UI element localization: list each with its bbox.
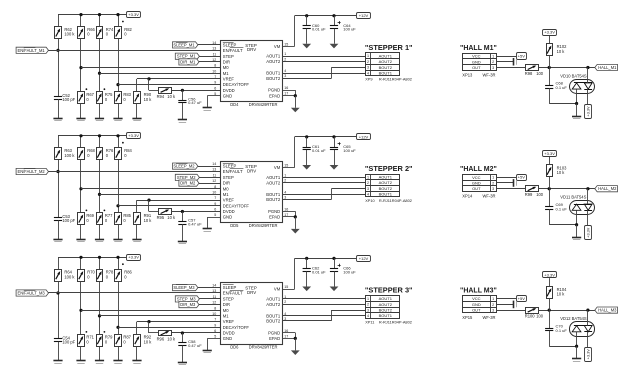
svg-text:DIR: DIR — [223, 181, 230, 186]
svg-text:DD5: DD5 — [230, 223, 239, 228]
svg-text:3: 3 — [284, 195, 286, 199]
svg-text:4: 4 — [367, 71, 369, 75]
svg-text:PGND: PGND — [268, 330, 280, 335]
svg-text:4: 4 — [367, 314, 369, 318]
svg-text:+5V: +5V — [518, 175, 526, 180]
svg-text:BOUT1: BOUT1 — [379, 192, 393, 197]
svg-text:10 k: 10 k — [167, 94, 176, 99]
svg-text:AOUT1: AOUT1 — [266, 54, 281, 59]
svg-text:STEP_M2: STEP_M2 — [177, 175, 196, 180]
svg-text:BOUT1: BOUT1 — [379, 313, 393, 318]
svg-text:1: 1 — [492, 55, 494, 59]
svg-text:4: 4 — [284, 190, 286, 194]
svg-text:AOUT2: AOUT2 — [266, 59, 281, 64]
svg-text:2: 2 — [492, 60, 494, 64]
svg-text:EPAD: EPAD — [269, 336, 280, 341]
svg-text:VCC: VCC — [472, 175, 481, 180]
svg-text:+3.3V: +3.3V — [128, 133, 139, 138]
svg-text:6: 6 — [214, 329, 216, 333]
svg-text:0.47 uF: 0.47 uF — [188, 343, 202, 348]
svg-text:0.01 uF: 0.01 uF — [312, 148, 326, 153]
svg-text:AOUT1: AOUT1 — [379, 175, 393, 180]
svg-text:4: 4 — [367, 193, 369, 197]
svg-text:R100: R100 — [525, 314, 536, 319]
svg-text:0.1 uF: 0.1 uF — [556, 328, 568, 333]
svg-text:100 uF: 100 uF — [343, 148, 356, 153]
svg-text:8: 8 — [214, 306, 216, 310]
svg-text:2: 2 — [367, 181, 369, 185]
svg-text:AOUT2: AOUT2 — [266, 302, 281, 307]
svg-text:VM: VM — [274, 287, 281, 292]
svg-text:1: 1 — [284, 173, 286, 177]
svg-text:R96: R96 — [157, 337, 165, 342]
svg-text:OUT: OUT — [472, 186, 481, 191]
svg-text:R98: R98 — [525, 71, 533, 76]
svg-text:XP14: XP14 — [462, 194, 473, 199]
svg-text:VREF: VREF — [223, 77, 235, 82]
svg-text:12: 12 — [212, 179, 216, 183]
svg-text:3: 3 — [492, 187, 494, 191]
svg-text:STEP_M3: STEP_M3 — [177, 296, 196, 301]
svg-text:8: 8 — [214, 185, 216, 189]
svg-text:3: 3 — [492, 309, 494, 313]
svg-text:R-RJ11R04P-A802: R-RJ11R04P-A802 — [379, 319, 412, 324]
svg-text:VD10 BAT54S: VD10 BAT54S — [560, 74, 587, 79]
svg-text:100 pF: 100 pF — [62, 97, 75, 102]
svg-text:14: 14 — [212, 41, 216, 45]
svg-text:11: 11 — [213, 295, 217, 299]
svg-text:M0: M0 — [223, 186, 229, 191]
svg-text:+12V: +12V — [359, 134, 369, 139]
svg-text:AOUT2: AOUT2 — [379, 302, 393, 307]
svg-text:R-RJ11R04P-A802: R-RJ11R04P-A802 — [379, 77, 412, 82]
svg-text:VCC: VCC — [472, 54, 481, 59]
svg-text:DD4: DD4 — [230, 102, 239, 107]
svg-text:100 uF: 100 uF — [343, 269, 356, 274]
svg-text:13: 13 — [212, 46, 216, 50]
svg-text:GND: GND — [472, 59, 481, 64]
svg-text:16: 16 — [284, 207, 288, 211]
svg-text:100: 100 — [536, 71, 544, 76]
svg-text:6: 6 — [214, 86, 216, 90]
svg-text:M1: M1 — [223, 314, 229, 319]
svg-text:"STEPPER 1": "STEPPER 1" — [365, 43, 413, 52]
svg-text:10: 10 — [212, 191, 216, 195]
svg-text:DIR_M3: DIR_M3 — [180, 302, 196, 307]
svg-text:7: 7 — [214, 196, 216, 200]
svg-text:+3.3V: +3.3V — [587, 349, 591, 359]
svg-text:VD12 BAT54S: VD12 BAT54S — [560, 316, 587, 321]
svg-text:9: 9 — [214, 202, 216, 206]
svg-text:+3.3V: +3.3V — [587, 106, 591, 116]
svg-text:2: 2 — [367, 303, 369, 307]
svg-text:BOUT2: BOUT2 — [379, 65, 393, 70]
svg-text:AOUT1: AOUT1 — [266, 175, 281, 180]
svg-text:10 k: 10 k — [144, 340, 153, 345]
svg-text:1: 1 — [492, 176, 494, 180]
svg-text:EN/FAULT: EN/FAULT — [223, 169, 243, 174]
svg-text:M0: M0 — [223, 308, 229, 313]
svg-text:11: 11 — [213, 52, 217, 56]
svg-text:14: 14 — [212, 162, 216, 166]
svg-text:100 k: 100 k — [64, 32, 75, 37]
svg-text:3: 3 — [367, 66, 369, 70]
svg-text:OUT: OUT — [472, 65, 481, 70]
svg-text:GND: GND — [472, 302, 481, 307]
svg-text:VCC: VCC — [472, 296, 481, 301]
svg-text:2: 2 — [492, 303, 494, 307]
svg-text:15: 15 — [284, 285, 288, 289]
svg-text:+3.3V: +3.3V — [544, 151, 555, 156]
svg-text:HALL_M2: HALL_M2 — [598, 186, 617, 191]
svg-text:3: 3 — [284, 74, 286, 78]
svg-text:EN/FAULT_M1: EN/FAULT_M1 — [17, 48, 45, 53]
svg-text:SLEEP_M2: SLEEP_M2 — [173, 164, 195, 169]
svg-text:10: 10 — [212, 312, 216, 316]
svg-text:SLEEP_M1: SLEEP_M1 — [173, 42, 195, 47]
svg-text:6: 6 — [214, 208, 216, 212]
svg-text:1: 1 — [367, 297, 369, 301]
svg-text:+3.3V: +3.3V — [128, 12, 139, 17]
svg-text:17: 17 — [284, 334, 288, 338]
svg-text:AOUT1: AOUT1 — [379, 296, 393, 301]
svg-text:SLEEP: SLEEP — [223, 43, 237, 48]
svg-text:DVDD: DVDD — [223, 209, 235, 214]
svg-text:0.01 uF: 0.01 uF — [312, 269, 326, 274]
svg-text:100: 100 — [536, 192, 544, 197]
svg-text:11: 11 — [213, 174, 217, 178]
svg-text:M1: M1 — [223, 192, 229, 197]
svg-text:SLEEP: SLEEP — [223, 285, 237, 290]
svg-text:1: 1 — [367, 175, 369, 179]
svg-text:1: 1 — [492, 297, 494, 301]
svg-text:9: 9 — [214, 81, 216, 85]
svg-text:AOUT1: AOUT1 — [379, 53, 393, 58]
svg-text:EN/FAULT_M3: EN/FAULT_M3 — [17, 291, 45, 296]
svg-text:10 k: 10 k — [144, 218, 153, 223]
svg-text:BOUT2: BOUT2 — [379, 186, 393, 191]
svg-text:7: 7 — [214, 318, 216, 322]
svg-text:HALL_M3: HALL_M3 — [598, 308, 617, 313]
svg-text:PGND: PGND — [268, 209, 280, 214]
svg-text:0.1 uF: 0.1 uF — [556, 206, 568, 211]
svg-text:12: 12 — [212, 301, 216, 305]
svg-text:DVDD: DVDD — [223, 88, 235, 93]
svg-text:15: 15 — [284, 164, 288, 168]
svg-text:100 k: 100 k — [64, 274, 75, 279]
svg-text:3: 3 — [492, 66, 494, 70]
svg-text:OUT: OUT — [472, 308, 481, 313]
svg-text:16: 16 — [284, 86, 288, 90]
svg-text:2: 2 — [367, 60, 369, 64]
svg-text:DRV: DRV — [247, 168, 256, 173]
svg-text:DRV8429RTER: DRV8429RTER — [249, 223, 278, 228]
svg-text:XP9: XP9 — [365, 77, 372, 82]
svg-text:"STEPPER 3": "STEPPER 3" — [365, 286, 413, 295]
svg-text:DD6: DD6 — [230, 345, 239, 350]
svg-text:STEP_M1: STEP_M1 — [177, 54, 196, 59]
svg-text:DRV: DRV — [247, 47, 256, 52]
svg-text:"HALL M3": "HALL M3" — [460, 288, 497, 295]
svg-text:"HALL M2": "HALL M2" — [460, 166, 497, 173]
svg-text:M1: M1 — [223, 71, 229, 76]
svg-text:0.47 uF: 0.47 uF — [188, 100, 202, 105]
svg-text:DIR_M2: DIR_M2 — [180, 181, 196, 186]
svg-text:+12V: +12V — [359, 256, 369, 261]
svg-text:13: 13 — [212, 289, 216, 293]
svg-text:"STEPPER 2": "STEPPER 2" — [365, 164, 413, 173]
svg-text:AOUT1: AOUT1 — [266, 296, 281, 301]
svg-text:STEP: STEP — [223, 297, 234, 302]
svg-text:+3.3V: +3.3V — [128, 255, 139, 260]
svg-text:0.47 uF: 0.47 uF — [188, 221, 202, 226]
svg-text:GND: GND — [223, 94, 232, 99]
svg-text:3: 3 — [367, 187, 369, 191]
svg-text:13: 13 — [212, 168, 216, 172]
svg-text:15: 15 — [284, 42, 288, 46]
svg-text:5: 5 — [214, 213, 216, 217]
svg-text:100 pF: 100 pF — [62, 218, 75, 223]
svg-text:GND: GND — [223, 215, 232, 220]
svg-text:AOUT2: AOUT2 — [379, 180, 393, 185]
svg-text:DRV: DRV — [247, 290, 256, 295]
svg-text:XP10: XP10 — [365, 198, 375, 203]
svg-text:BOUT2: BOUT2 — [266, 319, 281, 324]
svg-text:BOUT2: BOUT2 — [266, 197, 281, 202]
svg-text:R95: R95 — [157, 215, 165, 220]
svg-text:WF-3R: WF-3R — [483, 194, 496, 199]
svg-text:VD11 BAT54S: VD11 BAT54S — [560, 195, 586, 200]
svg-text:VREF: VREF — [223, 319, 235, 324]
svg-text:VM: VM — [274, 44, 281, 49]
svg-text:4: 4 — [284, 69, 286, 73]
svg-text:WF-3R: WF-3R — [483, 72, 496, 77]
svg-text:GND: GND — [223, 336, 232, 341]
svg-text:SLEEP_M3: SLEEP_M3 — [173, 285, 195, 290]
svg-text:R-RJ11R04P-A802: R-RJ11R04P-A802 — [379, 198, 412, 203]
svg-text:8: 8 — [214, 64, 216, 68]
svg-text:WF-3R: WF-3R — [483, 315, 496, 320]
svg-text:DRV8429RTER: DRV8429RTER — [249, 345, 278, 350]
svg-text:9: 9 — [214, 323, 216, 327]
svg-text:BOUT2: BOUT2 — [379, 307, 393, 312]
svg-text:DIR: DIR — [223, 302, 230, 307]
svg-text:EPAD: EPAD — [269, 93, 280, 98]
svg-text:DECAY/TOFF: DECAY/TOFF — [223, 325, 250, 330]
svg-text:10 k: 10 k — [557, 170, 566, 175]
svg-text:2: 2 — [492, 181, 494, 185]
svg-text:VREF: VREF — [223, 198, 235, 203]
svg-text:XP13: XP13 — [462, 72, 473, 77]
svg-text:+3.3V: +3.3V — [587, 227, 591, 237]
svg-text:R99: R99 — [525, 192, 533, 197]
svg-text:PGND: PGND — [268, 88, 280, 93]
svg-text:0.1 uF: 0.1 uF — [556, 85, 568, 90]
svg-text:3: 3 — [367, 308, 369, 312]
svg-text:DECAY/TOFF: DECAY/TOFF — [223, 82, 250, 87]
svg-text:M0: M0 — [223, 65, 229, 70]
svg-text:100 uF: 100 uF — [343, 27, 356, 32]
svg-text:BOUT1: BOUT1 — [379, 70, 393, 75]
svg-text:10: 10 — [212, 69, 216, 73]
svg-text:+3.3V: +3.3V — [544, 30, 555, 35]
svg-text:EPAD: EPAD — [269, 215, 280, 220]
svg-text:AOUT2: AOUT2 — [266, 180, 281, 185]
svg-text:XP11: XP11 — [365, 319, 374, 324]
svg-text:1: 1 — [284, 52, 286, 56]
svg-text:SLEEP: SLEEP — [223, 164, 237, 169]
svg-text:+5V: +5V — [518, 53, 526, 58]
svg-text:+12V: +12V — [359, 13, 369, 18]
svg-text:R94: R94 — [157, 94, 165, 99]
svg-text:10 k: 10 k — [557, 292, 566, 297]
svg-text:10 k: 10 k — [167, 337, 176, 342]
svg-text:EN/FAULT_M2: EN/FAULT_M2 — [17, 169, 45, 174]
svg-text:10 k: 10 k — [557, 49, 566, 54]
svg-text:DECAY/TOFF: DECAY/TOFF — [223, 203, 250, 208]
svg-text:DVDD: DVDD — [223, 331, 235, 336]
svg-text:12: 12 — [212, 58, 216, 62]
svg-text:DIR_M1: DIR_M1 — [180, 59, 196, 64]
svg-text:10 k: 10 k — [144, 97, 153, 102]
svg-text:STEP: STEP — [223, 54, 234, 59]
svg-text:AOUT2: AOUT2 — [379, 59, 393, 64]
svg-text:XP15: XP15 — [462, 315, 473, 320]
svg-text:+3.3V: +3.3V — [544, 272, 555, 277]
svg-text:14: 14 — [212, 284, 216, 288]
svg-text:EN/FAULT: EN/FAULT — [223, 48, 243, 53]
svg-text:100 k: 100 k — [64, 153, 75, 158]
svg-text:"HALL M1": "HALL M1" — [460, 45, 497, 52]
svg-text:DIR: DIR — [223, 60, 230, 65]
svg-text:2: 2 — [284, 58, 286, 62]
svg-text:100: 100 — [536, 314, 544, 319]
svg-text:2: 2 — [284, 300, 286, 304]
svg-text:EN/FAULT: EN/FAULT — [223, 291, 243, 296]
svg-text:0.01 uF: 0.01 uF — [312, 27, 326, 32]
svg-text:DRV8429RTER: DRV8429RTER — [249, 102, 278, 107]
svg-text:GND: GND — [472, 180, 481, 185]
svg-text:STEP: STEP — [223, 175, 234, 180]
svg-text:1: 1 — [367, 54, 369, 58]
svg-text:VM: VM — [274, 165, 281, 170]
svg-text:7: 7 — [214, 75, 216, 79]
svg-text:100 pF: 100 pF — [62, 340, 75, 345]
svg-text:BOUT2: BOUT2 — [266, 76, 281, 81]
svg-text:HALL_M1: HALL_M1 — [598, 65, 617, 70]
svg-text:+5V: +5V — [518, 296, 526, 301]
svg-text:10 k: 10 k — [167, 215, 176, 220]
